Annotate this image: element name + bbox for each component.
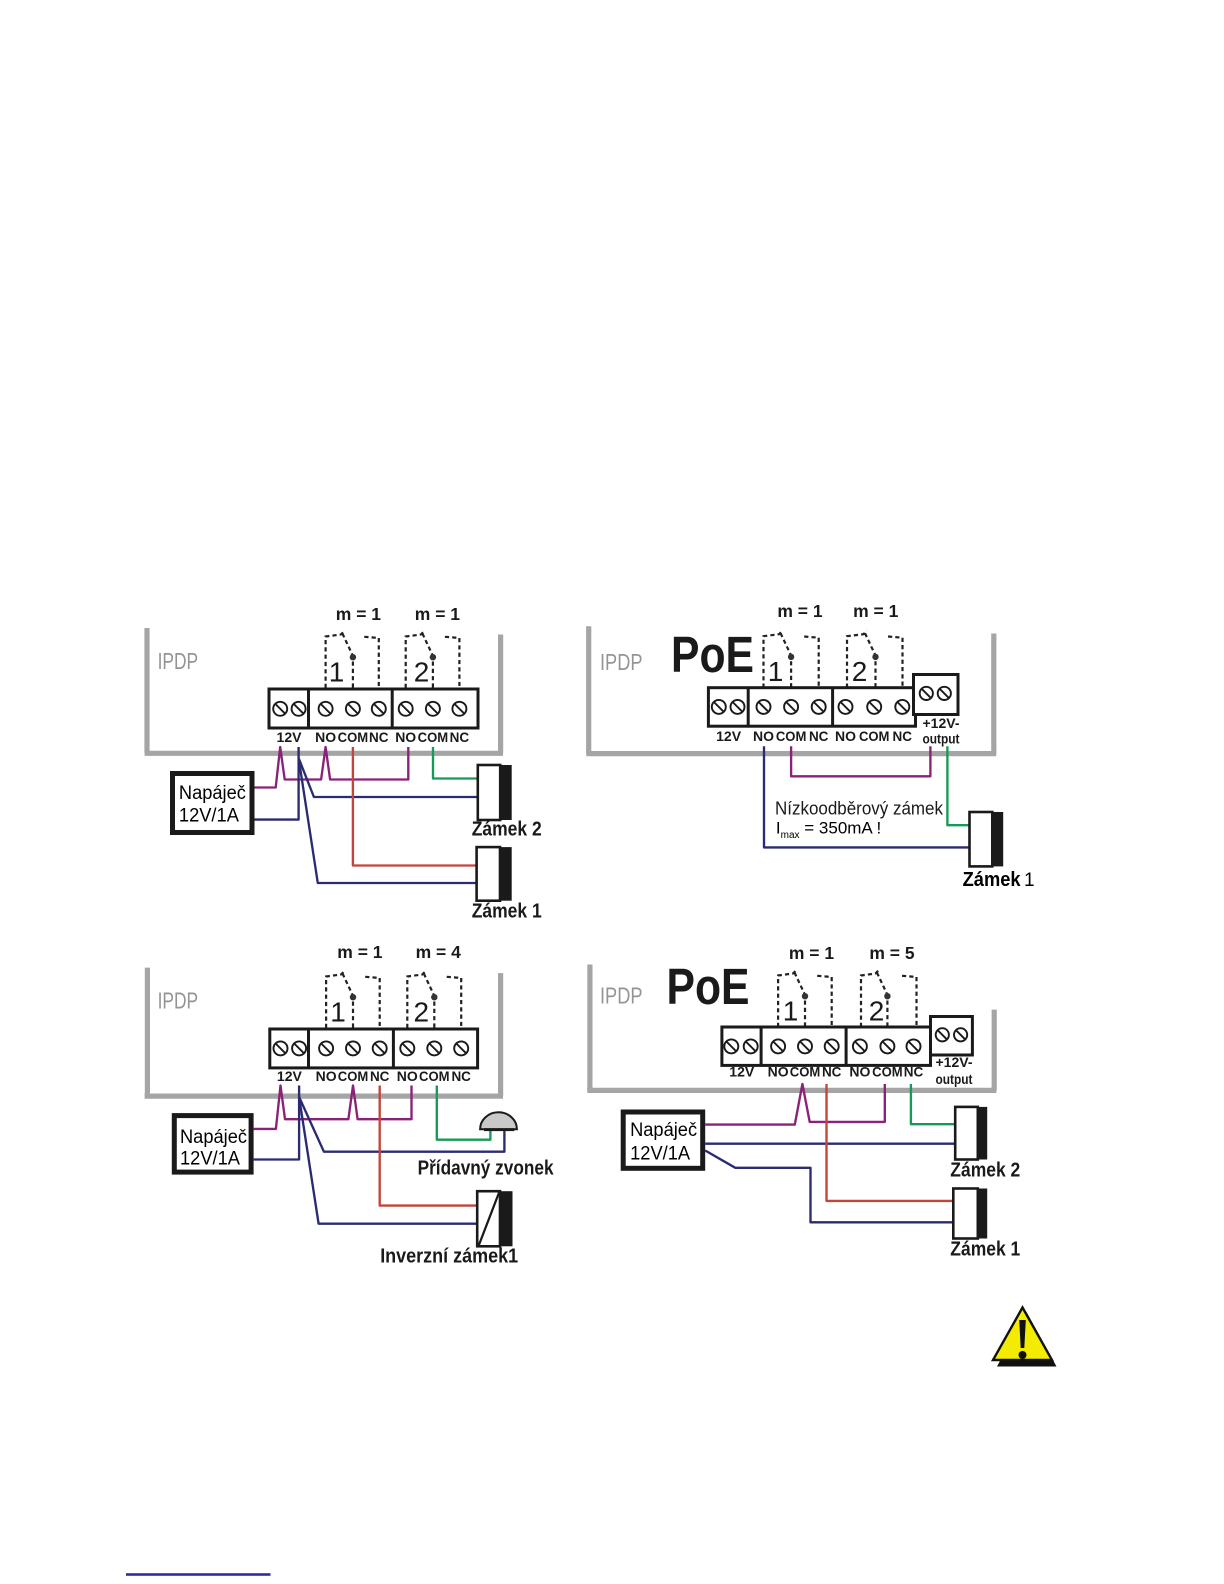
- svg-text:COM: COM: [790, 1064, 821, 1080]
- terminal block (diagram A): [269, 689, 478, 728]
- svg-text:m = 1: m = 1: [853, 601, 899, 621]
- screw terminal NO1 (diagram C): [319, 1041, 333, 1055]
- screw terminal COM1 (diagram A): [346, 702, 360, 716]
- pin label NC (diagram A): [369, 729, 389, 745]
- screw terminal NO2 (diagram A): [399, 702, 413, 716]
- pin label output (diagram D): [936, 1071, 973, 1087]
- label IPDP (diagram D): [600, 983, 643, 1009]
- wire supply - to lock Zámek 2 (navy, diagram D): [705, 1143, 955, 1145]
- svg-text:COM: COM: [859, 728, 890, 744]
- enclosure outline IPDP box (diagram A): [145, 628, 503, 753]
- label Zámek 1 (diagram A): [472, 901, 542, 923]
- screw terminal 12V-a (diagram B): [712, 700, 726, 714]
- terminal block (diagram C): [270, 1029, 478, 1068]
- pin label output (diagram B): [923, 731, 960, 747]
- pin label NC (diagram C): [451, 1068, 471, 1084]
- svg-text:12V: 12V: [716, 728, 742, 744]
- pin label 12V (diagram A): [277, 729, 303, 745]
- wire COM2 to bell (green, diagram C): [437, 1086, 491, 1140]
- pin label NC (diagram D): [822, 1064, 842, 1080]
- svg-text:Zámek: Zámek: [963, 869, 1022, 891]
- svg-text:COM: COM: [338, 729, 369, 745]
- pin label NC (diagram D): [904, 1064, 924, 1080]
- screw terminal NC2 (diagram A): [452, 702, 466, 716]
- screw terminal NC1 (diagram A): [372, 702, 386, 716]
- svg-text:NO: NO: [835, 728, 856, 744]
- relay contact 1 (diagram B): [764, 631, 819, 688]
- label Zámek 2 (diagram A): [472, 818, 542, 840]
- svg-text:Přídavný zvonek: Přídavný zvonek: [418, 1157, 555, 1179]
- terminal block (diagram D): [722, 1027, 931, 1065]
- wire supply - to 12V (navy, diagram A): [255, 747, 299, 820]
- screw terminal 12V-b (diagram B): [731, 700, 745, 714]
- pin label COM (diagram B): [859, 728, 890, 744]
- screw terminal 12V-a (diagram D): [724, 1039, 738, 1053]
- screw terminal COM1 (diagram D): [798, 1039, 812, 1053]
- lock symbol (Inverzní zámek 1, diagram C): [477, 1191, 512, 1246]
- pin label COM (diagram C): [419, 1068, 450, 1084]
- label Inverzní zámek1 (diagram C): [380, 1246, 518, 1268]
- lock symbol (Zámek 2, diagram A): [478, 765, 512, 820]
- pin label COM (diagram D): [872, 1064, 903, 1080]
- svg-text:output: output: [936, 1071, 973, 1087]
- svg-text:Zámek 1: Zámek 1: [472, 901, 542, 923]
- wire supply + to 12V, NO1, NO2 (magenta, diagram A): [255, 747, 409, 788]
- screw terminal NC1 (diagram B): [812, 700, 826, 714]
- pin label NO (diagram B): [753, 728, 774, 744]
- relay number 2 (diagram A): [414, 657, 430, 688]
- lock symbol (Zámek 1, diagram A): [477, 847, 512, 901]
- wire 12V - to lock Zámek 1 (navy, diagram A): [299, 758, 477, 883]
- value label m = 1 (relay 1, diagram C): [337, 942, 383, 962]
- svg-text:COM: COM: [418, 729, 449, 745]
- relay number 1 (diagram C): [330, 997, 346, 1028]
- value label m = 5 (relay 2, diagram D): [869, 943, 915, 963]
- pin label COM (diagram A): [418, 729, 449, 745]
- relay number 2 (diagram C): [414, 997, 430, 1028]
- note Imax = 350mA ! (diagram B): [776, 819, 881, 842]
- svg-text:m = 1: m = 1: [336, 604, 382, 624]
- svg-text:NC: NC: [370, 1068, 390, 1084]
- relay number 2 (diagram B): [852, 656, 868, 687]
- svg-text:2: 2: [852, 656, 868, 687]
- svg-text:12V: 12V: [729, 1064, 755, 1080]
- svg-text:NO: NO: [753, 728, 774, 744]
- lock symbol (Zámek 2, diagram D): [955, 1107, 987, 1160]
- svg-text:NC: NC: [369, 729, 389, 745]
- svg-text:NO: NO: [315, 729, 336, 745]
- svg-text:COM: COM: [776, 728, 807, 744]
- screw terminal COM2 (diagram B): [867, 700, 881, 714]
- svg-text:Nízkoodběrový zámek: Nízkoodběrový zámek: [775, 799, 944, 819]
- svg-text:12V: 12V: [277, 1068, 303, 1084]
- pin label NO (diagram A): [315, 729, 336, 745]
- svg-text:IPDP: IPDP: [600, 983, 643, 1009]
- svg-text:12V/1A: 12V/1A: [179, 805, 239, 826]
- screw terminal COM1 (diagram B): [784, 700, 798, 714]
- svg-text:NO: NO: [397, 1068, 418, 1084]
- svg-text:1: 1: [330, 997, 346, 1028]
- pin label NO (diagram B): [835, 728, 856, 744]
- screw terminal NC1 (diagram D): [825, 1039, 839, 1053]
- label Zámek 1 (diagram D): [950, 1238, 1020, 1260]
- svg-text:12V/1A: 12V/1A: [630, 1144, 690, 1165]
- wire supply + to 12V, COM1, NO2 (magenta, diagram C): [254, 1086, 412, 1129]
- label Zámek 2 (diagram D): [950, 1159, 1020, 1181]
- wire 12V - to inverse lock (navy, diagram C): [299, 1097, 477, 1224]
- screw terminal NO2 (diagram C): [400, 1041, 414, 1055]
- screw terminal NC2 (diagram D): [907, 1039, 921, 1053]
- svg-text:NC: NC: [822, 1064, 842, 1080]
- svg-text:output: output: [923, 731, 960, 747]
- bell Přídavný zvonek (diagram C): [480, 1112, 517, 1131]
- relay number 2 (diagram D): [869, 995, 885, 1026]
- screw terminal 12V-a (diagram C): [274, 1041, 288, 1055]
- svg-text:m = 1: m = 1: [789, 943, 835, 963]
- value label m = 1 (relay 1, diagram A): [336, 604, 382, 624]
- svg-text:COM: COM: [338, 1068, 369, 1084]
- terminal block (diagram B): [708, 688, 915, 727]
- +12V output terminal box (diagram B): [914, 675, 959, 715]
- relay contact 1 (diagram A): [326, 631, 379, 688]
- relay number 1 (diagram B): [768, 656, 784, 687]
- screw terminal NC2 (diagram C): [454, 1041, 468, 1055]
- relay contact 2 (diagram D): [861, 970, 917, 1027]
- relay contact 2 (diagram C): [407, 971, 461, 1028]
- screw terminal COM2 (diagram C): [427, 1041, 441, 1055]
- warning icon (yellow triangle): [993, 1308, 1057, 1367]
- svg-text:IPDP: IPDP: [158, 988, 199, 1014]
- svg-text:m = 5: m = 5: [869, 943, 915, 963]
- wire supply + to COM1, COM2 (magenta, diagram D): [705, 1084, 885, 1125]
- pin label COM (diagram A): [338, 729, 369, 745]
- screw terminal COM2 (diagram D): [880, 1039, 894, 1053]
- value label m = 4 (relay 2, diagram C): [416, 942, 462, 962]
- svg-text:m = 4: m = 4: [416, 942, 462, 962]
- wire COM1 to +12V output (magenta, diagram B): [791, 746, 930, 776]
- wire COM2 to lock Zámek 2 (green, diagram A): [433, 747, 478, 779]
- wire NO1 to lock Zámek 1 (navy, diagram B): [764, 746, 970, 847]
- svg-text:COM: COM: [872, 1064, 903, 1080]
- +12V output terminal box (diagram D): [931, 1017, 973, 1056]
- label IPDP (diagram A): [158, 648, 199, 674]
- svg-text:Napáječ: Napáječ: [179, 783, 246, 804]
- power supply Napáječ 12V/1A (diagram A): [173, 774, 253, 833]
- svg-text:NC: NC: [451, 1068, 471, 1084]
- svg-text:PoE: PoE: [671, 626, 754, 683]
- svg-text:2: 2: [414, 657, 430, 688]
- svg-text:12V/1A: 12V/1A: [180, 1148, 240, 1169]
- pin label NC (diagram C): [370, 1068, 390, 1084]
- pin label NO (diagram C): [316, 1068, 337, 1084]
- screw terminal NO1 (diagram A): [319, 702, 333, 716]
- svg-text:1: 1: [329, 657, 345, 688]
- svg-text:+12V-: +12V-: [936, 1054, 973, 1070]
- relay contact 1 (diagram C): [326, 971, 380, 1028]
- svg-text:NO: NO: [849, 1064, 870, 1080]
- svg-text:+12V-: +12V-: [923, 715, 960, 731]
- screw terminal 12V-b (diagram D): [744, 1039, 758, 1053]
- pin label COM (diagram C): [338, 1068, 369, 1084]
- screw terminal COM1 (diagram C): [346, 1041, 360, 1055]
- note Nízkoodběrový zámek (diagram B): [775, 799, 944, 819]
- svg-text:2: 2: [869, 995, 885, 1026]
- wire 12V - to lock Zámek 2 (navy, diagram A): [299, 758, 478, 797]
- enclosure outline IPDP box (diagram D): [587, 965, 996, 1091]
- svg-text:IPDP: IPDP: [600, 649, 643, 675]
- wire NC1 to lock Zámek 1 (red, diagram D): [827, 1084, 954, 1201]
- pin label NC (diagram B): [809, 728, 829, 744]
- svg-text:NC: NC: [809, 728, 829, 744]
- svg-text:Inverzní zámek1: Inverzní zámek1: [380, 1246, 518, 1268]
- svg-text:NC: NC: [904, 1064, 924, 1080]
- value label m = 1 (relay 2, diagram B): [853, 601, 899, 621]
- svg-text:PoE: PoE: [667, 958, 750, 1015]
- label PoE (diagram D): [667, 958, 750, 1015]
- wire +12V output to lock Zámek 1 (green, diagram B): [947, 746, 969, 825]
- pin label NO (diagram D): [768, 1064, 789, 1080]
- svg-text:1: 1: [783, 995, 799, 1026]
- svg-text:NC: NC: [450, 729, 470, 745]
- svg-text:Zámek 2: Zámek 2: [950, 1159, 1020, 1181]
- svg-text:Napáječ: Napáječ: [630, 1120, 697, 1141]
- pin label NO (diagram D): [849, 1064, 870, 1080]
- relay number 1 (diagram D): [783, 995, 799, 1026]
- screw terminal NC2 (diagram B): [895, 700, 909, 714]
- pin label 12V (diagram D): [729, 1064, 755, 1080]
- svg-text:NO: NO: [316, 1068, 337, 1084]
- power supply Napáječ 12V/1A (diagram C): [174, 1116, 251, 1173]
- label Přídavný zvonek (diagram C): [418, 1157, 555, 1179]
- svg-text:m = 1: m = 1: [337, 942, 383, 962]
- pin label 12V (diagram B): [716, 728, 742, 744]
- pin label NO (diagram C): [397, 1068, 418, 1084]
- svg-text:COM: COM: [419, 1068, 450, 1084]
- svg-text:Zámek 2: Zámek 2: [472, 818, 542, 840]
- svg-text:12V: 12V: [277, 729, 303, 745]
- screw terminal 12V-b (diagram A): [292, 702, 306, 716]
- svg-text:m = 1: m = 1: [415, 604, 461, 624]
- screw terminal 12V-b (diagram C): [292, 1041, 306, 1055]
- pin label NC (diagram B): [893, 728, 913, 744]
- pin label COM (diagram D): [790, 1064, 821, 1080]
- wire NC1 to inverse lock (red, diagram C): [380, 1086, 478, 1206]
- svg-text:Napáječ: Napáječ: [180, 1127, 247, 1148]
- screw terminal NC1 (diagram C): [373, 1041, 387, 1055]
- value label m = 1 (relay 2, diagram A): [415, 604, 461, 624]
- svg-text:1: 1: [768, 656, 784, 687]
- pin label +12V- (diagram B): [923, 715, 960, 731]
- screw terminal NO1 (diagram D): [771, 1039, 785, 1053]
- screw terminal NO2 (diagram D): [853, 1039, 867, 1053]
- svg-text:IPDP: IPDP: [158, 648, 199, 674]
- pin label NC (diagram A): [450, 729, 470, 745]
- relay number 1 (diagram A): [329, 657, 345, 688]
- pin label COM (diagram B): [776, 728, 807, 744]
- enclosure outline IPDP box (diagram C): [145, 968, 503, 1097]
- screw terminal NO2 (diagram B): [839, 700, 853, 714]
- power supply Napáječ 12V/1A (diagram D): [623, 1112, 703, 1168]
- svg-text:Zámek 1: Zámek 1: [950, 1238, 1020, 1260]
- pin label NO (diagram A): [395, 729, 416, 745]
- enclosure outline IPDP box (diagram B): [586, 626, 996, 753]
- svg-text:2: 2: [414, 997, 430, 1028]
- relay contact 2 (diagram B): [847, 631, 903, 688]
- wire NC2 to lock Zámek 2 (green, diagram D): [911, 1084, 955, 1124]
- screw terminal 12V-a (diagram A): [273, 702, 287, 716]
- relay contact 2 (diagram A): [406, 631, 460, 688]
- lock symbol (Zámek 1, diagram D): [953, 1189, 987, 1239]
- label IPDP (diagram B): [600, 649, 643, 675]
- label PoE (diagram B): [671, 626, 754, 683]
- lock symbol (Zámek 1, diagram B): [970, 812, 1004, 866]
- svg-text:NO: NO: [395, 729, 416, 745]
- wire 12V - to bell (navy, diagram C): [299, 1097, 504, 1152]
- pin label 12V (diagram C): [277, 1068, 303, 1084]
- value label m = 1 (relay 1, diagram D): [789, 943, 835, 963]
- relay contact 1 (diagram D): [778, 970, 832, 1027]
- wire COM1 to lock Zámek 1 (red, diagram A): [353, 747, 477, 866]
- svg-text:NO: NO: [768, 1064, 789, 1080]
- svg-text:m = 1: m = 1: [777, 601, 823, 621]
- wire supply - to lock Zámek 1 (navy, diagram D): [705, 1151, 953, 1223]
- svg-text:1: 1: [1024, 870, 1035, 891]
- pin label +12V- (diagram D): [936, 1054, 973, 1070]
- value label m = 1 (relay 1, diagram B): [777, 601, 823, 621]
- label IPDP (diagram C): [158, 988, 199, 1014]
- screw terminal NO1 (diagram B): [757, 700, 771, 714]
- footnote rule (blue line): [126, 1573, 271, 1576]
- label Zámek 1 (diagram B): [963, 869, 1035, 891]
- wire supply - to 12V (navy, diagram C): [254, 1086, 300, 1160]
- screw terminal COM2 (diagram A): [426, 702, 440, 716]
- svg-text:NC: NC: [893, 728, 913, 744]
